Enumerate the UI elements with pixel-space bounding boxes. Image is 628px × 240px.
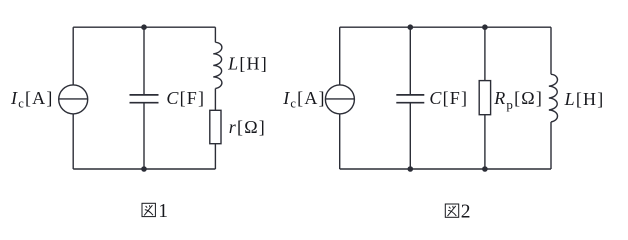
wire: fig2 capacitor branch upper — [409, 27, 411, 94]
svg-text:Rp[Ω]: Rp[Ω] — [493, 88, 543, 112]
svg-text:2: 2 — [461, 202, 471, 223]
wire: fig1 below resistor — [214, 144, 216, 169]
svg-text:r[Ω]: r[Ω] — [229, 117, 266, 137]
svg-text:C[F]: C[F] — [166, 88, 205, 108]
caption fig2: kanji ZU drawn as strokes — [445, 204, 458, 217]
wire: fig1 capacitor branch lower — [143, 103, 145, 169]
svg-text:C[F]: C[F] — [429, 88, 468, 108]
node: fig1 capacitor top junction — [141, 24, 147, 30]
wire: fig1 top rail — [73, 26, 215, 28]
svg-text:L[H]: L[H] — [564, 89, 605, 109]
inductor L (fig1) — [213, 42, 222, 88]
capacitor C (fig1) — [130, 95, 159, 103]
wire: fig2 left edge above source — [339, 27, 341, 85]
svg-text:Ic[A]: Ic[A] — [282, 88, 326, 111]
current source Ic (fig1) — [59, 85, 88, 114]
svg-text:L[H]: L[H] — [227, 53, 268, 73]
capacitor C (fig2) — [396, 95, 424, 103]
wire: fig2 bottom rail — [340, 168, 551, 170]
wire: fig1 between L and r — [214, 89, 216, 111]
node: fig2 capacitor top junction — [408, 24, 414, 30]
resistor Rp (fig2) — [479, 81, 490, 115]
node: fig2 Rp top junction — [482, 24, 488, 30]
wire: fig2 right edge above inductor — [550, 27, 552, 74]
wire: fig1 capacitor branch upper — [143, 27, 145, 94]
svg-text:Ic[A]: Ic[A] — [10, 88, 54, 111]
current source Ic (fig2) — [325, 85, 354, 114]
wire: fig2 Rp branch upper — [484, 27, 486, 80]
node: fig1 capacitor bottom junction — [141, 166, 147, 172]
inductor L (fig2) — [549, 74, 558, 122]
wire: fig2 top rail — [340, 26, 551, 28]
wire: fig1 left edge above source — [72, 27, 74, 85]
resistor r (fig1) — [210, 110, 221, 143]
svg-text:1: 1 — [158, 201, 168, 222]
wire: fig2 left edge below source — [339, 114, 341, 169]
wire: fig2 Rp branch lower — [484, 115, 486, 169]
caption fig1: kanji ZU drawn as strokes — [142, 203, 155, 216]
wire: fig1 bottom rail — [73, 168, 215, 170]
wire: fig2 right edge below inductor — [550, 122, 552, 169]
wire: fig2 capacitor branch lower — [409, 103, 411, 169]
node: fig2 Rp bottom junction — [482, 166, 488, 172]
wire: fig1 right edge above inductor — [214, 27, 216, 42]
wire: fig1 left edge below source — [72, 114, 74, 169]
node: fig2 capacitor bottom junction — [408, 166, 414, 172]
